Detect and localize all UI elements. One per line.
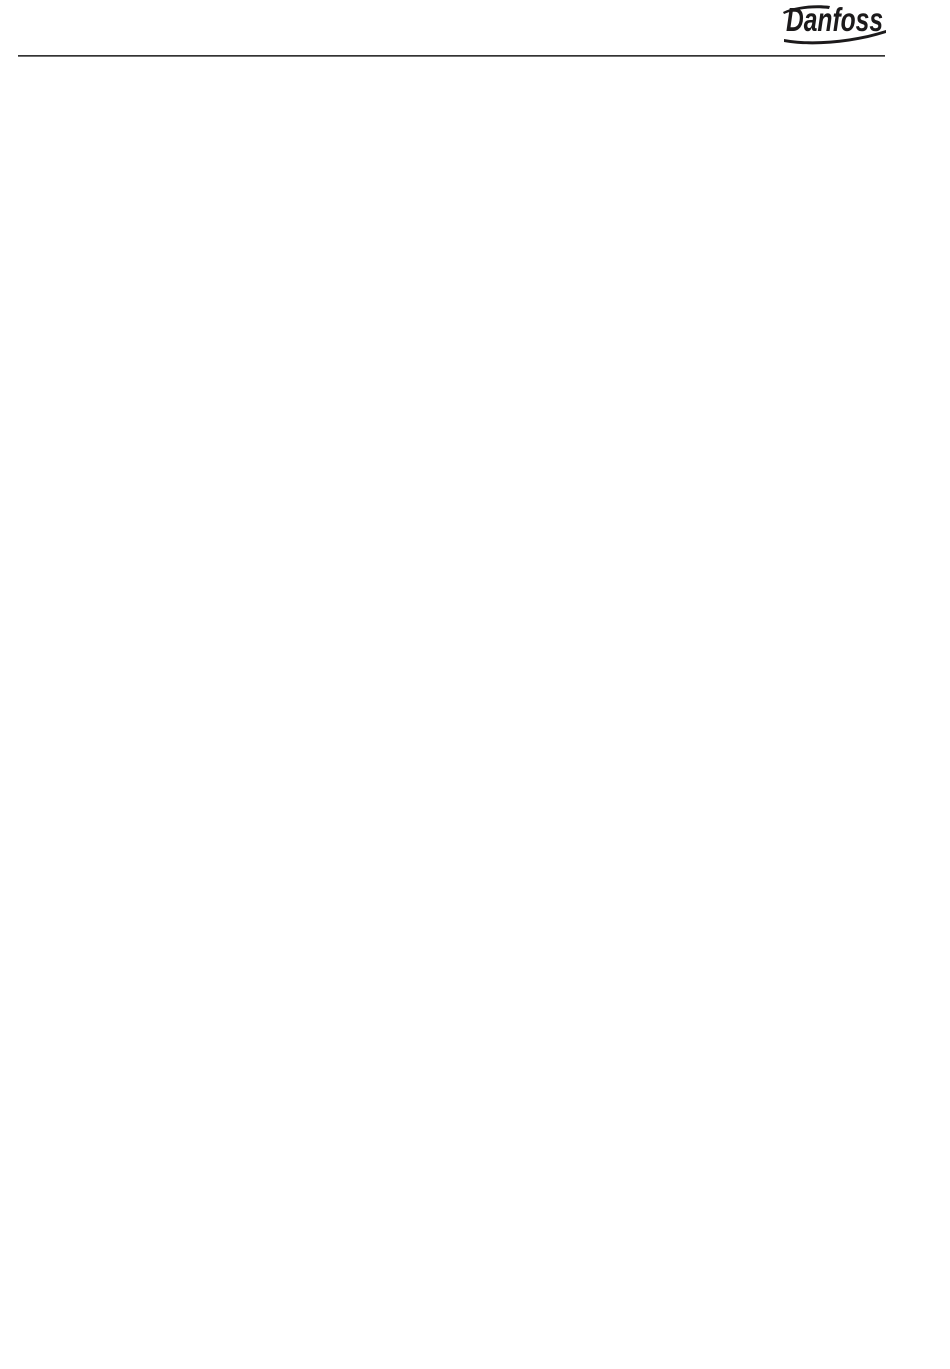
header rule [18,55,885,57]
svg-text:Danfoss: Danfoss [786,1,883,38]
Danfoss logo [783,1,886,44]
